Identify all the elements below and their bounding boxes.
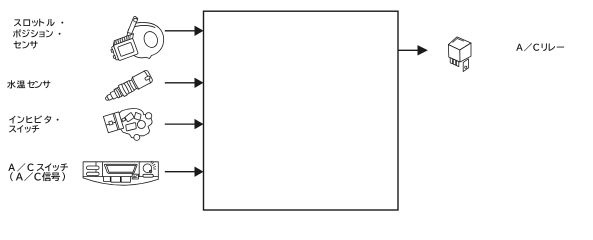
wire: arrow 5 ECU to A/C relay [398, 45, 428, 55]
A/C control panel icon [83, 161, 158, 185]
connector housing [131, 70, 153, 90]
cam slot upper-left [125, 113, 134, 122]
body inner contour [132, 25, 156, 28]
plate hole bottom [134, 134, 140, 140]
label: throttle position sensor text [13, 19, 63, 49]
panel bottom curve [83, 178, 158, 185]
wire: arrow 3 inhibitor switch to ECU [165, 119, 204, 129]
sensor lever flag [128, 16, 138, 33]
label: A/C switch (A/C signal) text [8, 163, 68, 181]
hex nut [121, 80, 135, 94]
wire: arrow 4 A/C switch to ECU [165, 167, 204, 177]
control knob [143, 164, 152, 173]
step cylinder [110, 90, 119, 99]
tip cylinder [107, 94, 114, 101]
collar ring [129, 80, 137, 90]
bracket hole [465, 66, 467, 68]
sensor tip [105, 96, 110, 101]
A/C relay icon [448, 37, 471, 72]
knob button [143, 174, 153, 177]
top face seam [453, 39, 464, 43]
left button lower [87, 172, 100, 175]
label: inhibitor switch text [9, 115, 59, 132]
body mount hole [142, 30, 160, 50]
wire: arrow 2 water temp sensor to ECU [165, 78, 204, 88]
switch body plate [118, 108, 152, 138]
lever pivot hole [134, 18, 138, 22]
label: water temp sensor text [7, 80, 50, 88]
button row [104, 177, 131, 183]
connector block [103, 112, 123, 133]
connector slot [145, 76, 151, 81]
relay front-left face [448, 45, 460, 62]
sensor body [125, 23, 164, 59]
rotor circle [137, 121, 145, 129]
A/C button [132, 174, 138, 179]
relay pins [450, 58, 452, 64]
display window [104, 164, 137, 173]
cam slot upper-right [134, 112, 141, 120]
small notch left [122, 118, 126, 122]
ECU block [204, 11, 399, 210]
wire: arrow 1 throttle sensor to ECU [165, 26, 204, 36]
relay front-right face [460, 43, 471, 62]
relay bracket pin [463, 59, 468, 72]
throttle position sensor icon [108, 16, 163, 62]
plate hole top-right [145, 113, 151, 119]
relay top face [448, 37, 471, 50]
water temperature sensor icon [102, 69, 153, 105]
label: A/C relay text [516, 43, 564, 51]
connector block [108, 34, 140, 62]
panel dividers [96, 162, 139, 177]
panel face [83, 162, 158, 177]
flange [118, 84, 128, 97]
lower slot [126, 123, 136, 131]
left button upper [87, 166, 100, 170]
inhibitor switch icon [103, 108, 152, 140]
threaded section [114, 87, 124, 98]
